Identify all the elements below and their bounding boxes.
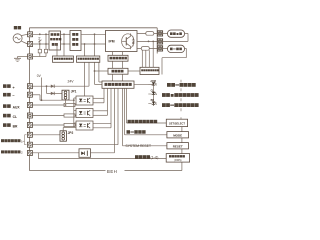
photocoupler PC2 [76,109,93,118]
junction output mid [148,41,150,43]
photocoupler PC1 [76,96,93,105]
switch DWS [166,154,189,163]
junction feed 3 [84,43,86,45]
wire output mid [137,40,157,42]
junction feed 4b [94,43,96,45]
LED BR stub [148,103,151,105]
wire common to PC3 [74,122,76,124]
wire feed input-detect 1 [56,44,58,56]
text switching power supply [78,58,99,60]
wire sw bus 1 [126,88,128,123]
enclosure left border [28,28,30,171]
label clutch operation lamp [162,93,199,97]
wire PC2 out h [93,110,108,112]
wire switching to control 2h [99,81,102,83]
text soft-charge line3 [52,43,58,46]
junction cap tap 2 [45,43,47,45]
svg-text:JP2: JP2 [68,131,74,135]
dashed panel line seg3 [180,108,182,111]
bundle tap wire [39,34,41,44]
IGBT collector stroke [126,36,130,39]
wire sw bus 3 [122,88,124,146]
label alarm lamp [167,83,196,87]
svg-text:MODE: MODE [173,133,182,137]
wire to brake [163,47,168,49]
wire PC3 out h2 [93,127,111,129]
wire sw panel line [181,119,183,170]
LED CL stub [148,93,151,95]
label mode select [127,130,146,134]
wire alarm out2 row [31,152,79,154]
terminal power minus [27,92,32,97]
label alarm out2 [1,150,21,153]
leader alarm1 b [24,135,26,145]
leader alarm1 a [23,140,25,142]
svg-text:SYSTEM RESET: SYSTEM RESET [126,144,151,148]
wire PC3 out v [110,88,112,128]
junction switching protect [94,70,96,72]
bundle count 2 [38,35,41,40]
wire sense drop 4 [152,41,154,67]
label operation setting [135,155,150,159]
wire rails soft-to-rect bottom [61,43,71,45]
wire op BR to PC3 [75,124,76,126]
IGBT diode bar [132,39,135,41]
resistor R1 [146,32,154,36]
text drive circuit [110,57,127,60]
junction sense 4 [152,41,154,43]
label power minus [3,93,11,97]
wire switching to protect v [94,62,96,84]
label power plus [3,84,11,88]
wire alarm out1 row [33,144,118,146]
wire PC1 out h [93,97,104,99]
wire IPM to drive 2 [121,52,123,56]
wire aux supply drop [84,62,86,96]
IGBT gate lead [122,40,126,42]
svg-text:IPM: IPM [109,40,115,44]
box input power detect circuit [53,56,74,62]
wire to clutch [163,32,168,34]
clutch coil [168,30,185,37]
wire sense drop 3 [148,50,150,67]
leader alarm1 d [25,144,27,146]
relay SSR1 [79,149,91,158]
AC source [13,34,22,43]
wire AC to terminal L1 [22,34,28,35]
svg-text:AUX: AUX [13,106,21,110]
cap tap 2 wire lower [45,53,47,57]
svg-text:SET/SELECT: SET/SELECT [169,121,185,125]
text control circuit [105,83,132,86]
wire PC1 out v [103,88,105,103]
connector JP1 [62,90,69,100]
text soft-charge line2 [50,38,61,40]
label input (nyuuryoku) [14,26,21,29]
dashed panel line seg0 [180,80,182,83]
switch RESET [167,143,189,149]
switch SET/SELECT [166,119,187,126]
junction cap tap2 top [45,33,47,35]
terminal input L2 [28,42,33,47]
wire brake return c [162,57,186,59]
junction feed 2 [63,33,65,35]
wire alarm A row [33,134,60,136]
text output power detect [141,69,159,71]
wire JP1 branch v [46,86,48,93]
box output power detect circuit [140,67,159,74]
svg-text:24V: 24V [68,79,75,83]
capacitor CZ1 [38,49,41,53]
label brake operation lamp [162,103,199,107]
label set-select [128,120,158,123]
wire protect to control 1 [112,74,114,81]
wire feed input-detect 2 [63,34,65,56]
bundle slash [38,40,41,43]
IGBT envelope [122,34,134,49]
svg-text:RESET: RESET [173,144,183,148]
resistor R2 [141,47,149,51]
junction feed 1 [56,43,58,45]
dashed panel line seg4 [180,117,182,119]
junction power plus [46,85,48,87]
wire op AUX to PC1 [75,104,76,106]
label model BEH [106,168,125,175]
brake coil [168,45,185,52]
wire sense drop 1 [141,50,143,67]
wire rails rect-to-IPM top [81,33,106,35]
wire clutch return a [185,32,189,34]
wire IPM to drive 1 [112,52,114,56]
svg-text:BR: BR [13,125,18,129]
enclosure top border [29,27,157,29]
box drive circuit [108,55,128,61]
box protect circuit [108,68,128,74]
wire clutch return b [187,33,189,41]
wire brake return b [185,48,187,57]
terminal power plus [27,84,32,89]
label alarm out1 [1,139,21,142]
IGBT emitter lead [130,46,132,49]
wire drive to protect 2 [121,61,123,68]
wire sw bus 2 [124,88,126,135]
junction feed 2b [63,43,65,45]
terminal op AUX [27,103,32,108]
wire JP2 up [62,128,64,131]
wire SSR out [91,152,115,154]
capacitor CZ2 [44,49,47,53]
IGBT diode lead [132,37,134,40]
wire PC2 out v [107,88,109,115]
wire sense drop 2 [145,50,147,67]
terminal input L1 [28,32,33,37]
box soft-charge circuit [49,31,61,50]
label op BR [3,123,11,127]
terminal alarm A [27,132,32,137]
wire drive to protect 1 [112,61,114,68]
dashed panel line seg1 [180,88,182,91]
switch MODE [167,132,189,138]
wire LED column [153,84,155,106]
wire common to PC1 [74,97,76,99]
connector output 3 [157,46,162,51]
IGBT emitter stroke [126,43,130,46]
label op CL [3,114,11,118]
LED BR [152,102,157,105]
terminal op CL [27,113,32,118]
wire output U [137,32,157,34]
wire switching to control [95,83,103,85]
label op AUX [3,104,11,108]
wire power minus row [33,94,40,96]
wire 24V drop [88,62,90,86]
wire alarm out2 jog [38,153,40,159]
dashed panel line seg2 [180,98,182,101]
junction bundle top [39,33,41,35]
wire PC2 out h2 [93,114,108,116]
text input power detect [54,58,73,60]
junction common [73,99,75,101]
cap tap 1 wire upper [39,44,41,49]
wire rail bottom [33,43,49,45]
wire protect to detect [128,70,140,72]
terminal alarm out1 [27,142,32,147]
text rect line1 [72,33,78,36]
wire switching to control 2v [98,62,100,82]
terminal alarm out2 [27,151,32,156]
resistor R-BR [64,123,75,126]
terminal input ground [28,54,33,59]
wire JP1 bottom [65,100,67,105]
LED CL [152,92,157,95]
svg-text:JP1: JP1 [71,89,77,93]
photocoupler PC3 [76,121,93,130]
wire switching to protect h [95,70,109,72]
diode D1 [51,85,54,88]
leader alarm1 c [25,134,27,136]
svg-text:BEH: BEH [107,169,117,174]
wire 0V stub [41,78,43,101]
wire output W [137,47,157,49]
svg-text:(DWS): (DWS) [174,159,181,162]
wire PC3 out h [93,122,111,124]
text clutch [170,32,182,35]
junction cap tap 1 [39,43,41,45]
wire clutch return c [163,40,188,42]
connector output 1 [157,31,162,36]
wire alarm out1 v [117,88,119,144]
box rectifier-smoothing circuit [70,31,81,51]
wire AC to terminal L2 [22,41,28,44]
LED ARM [152,82,157,85]
IGBT gate bar [125,37,127,45]
wire alarm out2 lower [39,158,167,160]
junction JP1-AUX [65,104,67,106]
text protect circuit [112,70,124,73]
text DWS line1 [169,155,185,157]
text rect line2 [72,38,78,41]
connector JP2 [60,131,66,141]
junction 0V [41,99,43,101]
wire rails soft-to-rect top [61,33,71,35]
wire feed switching 1 [84,44,86,56]
connector output 2 [157,39,162,44]
text rect line3 [72,43,78,46]
wire op CL row [33,115,64,117]
text brake [170,48,182,51]
junction feed 4 [94,33,96,35]
enclosure bottom border [29,170,182,172]
wire feed switching 2 [94,34,96,56]
wire cap line [33,56,46,58]
wire SSR out v [114,88,116,153]
text soft-charge line1 [51,33,60,36]
wire common to PC2 [74,110,76,112]
box IPM [106,31,138,52]
wire op AUX row [33,104,64,106]
svg-text:CL: CL [13,115,17,119]
wire brake return a [185,47,187,49]
box switching power supply circuit [77,56,100,62]
wire PC1 out h2 [93,102,104,104]
wire op BR row [33,124,64,126]
resistor R-AUX [64,103,75,106]
wire op CL to PC2 [75,114,76,116]
IGBT diode triangle [132,41,135,44]
IGBT collector lead [130,33,132,36]
wire power plus row [33,85,89,87]
diode D2 [51,92,54,95]
enclosure right border upper [156,28,158,54]
resistor R-CL [64,114,75,117]
wire common rail [73,98,75,127]
LED ARM stub [148,83,151,85]
cap tap 1 wire lower [39,53,41,57]
wire protect to control 2 [121,74,123,81]
wire brake return d [161,58,163,75]
wire ground run [18,56,28,58]
cap tap 2 wire upper [45,34,47,49]
wire rails rect-to-IPM bottom [81,43,106,45]
wire rail top [33,33,49,35]
wire JP1 branch h [47,92,63,94]
box control circuit [102,81,134,88]
ground symbol [14,57,21,62]
terminal op BR [27,123,32,128]
wire control to LEDs [134,83,154,85]
svg-text:(1~6): (1~6) [151,156,159,160]
